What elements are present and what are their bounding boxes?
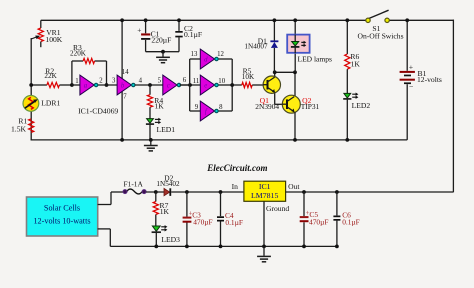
wire C4 branch xyxy=(220,192,222,246)
svg-text:6: 6 xyxy=(183,77,187,84)
svg-text:0.1µF: 0.1µF xyxy=(184,30,202,39)
svg-text:1: 1 xyxy=(75,78,78,85)
label On-Off Swichs xyxy=(357,32,403,41)
label LED lamps xyxy=(298,55,332,64)
label 1.5K xyxy=(11,124,26,133)
wire solar negative lead xyxy=(98,229,111,247)
label 100K xyxy=(45,35,62,44)
solar panel block xyxy=(27,197,98,236)
node regulator ground junction xyxy=(262,245,266,249)
label 0.1uF (C2) xyxy=(184,30,202,39)
svg-text:1N4007: 1N4007 xyxy=(244,43,268,51)
fuse F1 xyxy=(123,189,146,194)
label Q1 xyxy=(260,96,269,105)
label 0.1uF (C4) xyxy=(225,218,243,227)
svg-text:1.5K: 1.5K xyxy=(11,124,26,133)
wire LED-lamps branch xyxy=(294,20,296,72)
svg-text:12-volts 10-watts: 12-volts 10-watts xyxy=(33,217,90,226)
svg-text:b: b xyxy=(121,83,125,90)
node C3 top junction xyxy=(185,190,189,194)
node LED1 bottom-rail junction xyxy=(149,138,153,142)
LED LED1 xyxy=(146,118,161,140)
svg-text:2: 2 xyxy=(99,78,103,85)
wire Q1 emitter to Q2 base xyxy=(275,92,287,104)
svg-text:0.1µF: 0.1µF xyxy=(225,218,243,227)
svg-text:Ground: Ground xyxy=(266,204,289,213)
label C1 xyxy=(151,30,160,39)
svg-text:+: + xyxy=(409,62,414,71)
op-amp U1f inverter gate f xyxy=(200,101,218,121)
wire bottom ground rail xyxy=(110,245,337,247)
label IC1-CD4069 xyxy=(78,107,118,116)
label 220K xyxy=(70,50,87,58)
label R4 xyxy=(154,96,163,105)
label 0.1uF (C6) xyxy=(342,217,360,226)
wire top supply rail (S1 to right corner) xyxy=(387,19,454,21)
node gates-output junction xyxy=(230,83,234,87)
node Q2 collector junction xyxy=(293,70,297,74)
node pin7 bottom-rail junction xyxy=(120,138,124,142)
label Solar Cells xyxy=(44,204,80,213)
LED LED2 xyxy=(343,93,358,99)
label R2 xyxy=(45,66,54,75)
wire bottom rail of top section xyxy=(31,139,408,141)
svg-text:2N3904: 2N3904 xyxy=(255,102,279,111)
op-amp U1a inverter gate a xyxy=(80,75,98,95)
label 1K (R6) xyxy=(351,60,361,69)
switch S1 xyxy=(366,10,390,22)
pin 10 label xyxy=(218,78,225,85)
label 1N4007 xyxy=(244,43,268,51)
resistor R7 xyxy=(153,192,158,226)
svg-text:10K: 10K xyxy=(242,73,255,81)
svg-text:7: 7 xyxy=(123,94,127,101)
label 220uF xyxy=(151,36,171,45)
wire Q2 collector xyxy=(294,72,296,96)
svg-text:F1-1A: F1-1A xyxy=(124,180,144,189)
wire gate-b output to gate-c input xyxy=(135,84,163,86)
node LED-lamps top-rail junction xyxy=(293,18,297,22)
svg-text:9: 9 xyxy=(195,104,199,111)
svg-text:e: e xyxy=(204,83,207,90)
svg-text:Out: Out xyxy=(288,182,300,191)
pin 13 label xyxy=(191,51,198,58)
ground below LED1 node xyxy=(144,140,158,151)
pin 14 label xyxy=(122,69,129,76)
label TIP31 xyxy=(301,102,320,111)
svg-text:12-volts: 12-volts xyxy=(417,75,442,84)
pin 9 label xyxy=(195,104,199,111)
label 12-volts xyxy=(417,75,442,84)
capacitor C5 xyxy=(300,209,310,222)
resistor R2 xyxy=(31,82,72,87)
svg-text:a: a xyxy=(84,83,88,90)
LED LED3 xyxy=(152,225,168,246)
svg-text:220K: 220K xyxy=(70,50,87,58)
svg-text:IC1-CD4069: IC1-CD4069 xyxy=(78,107,118,116)
ground below regulator xyxy=(257,246,271,261)
capacitor C3 xyxy=(183,209,193,222)
svg-text:Solar Cells: Solar Cells xyxy=(44,204,80,213)
node paralleled-gates input junction xyxy=(188,83,192,87)
svg-text:11: 11 xyxy=(193,78,200,85)
svg-text:3: 3 xyxy=(112,78,116,85)
ground below C1/C2 xyxy=(156,52,170,63)
wire fuse to D2 xyxy=(146,191,164,193)
label 1K (R4) xyxy=(155,102,165,111)
pin 1 label xyxy=(75,78,78,85)
capacitor C6 xyxy=(333,216,340,221)
svg-text:LM7815: LM7815 xyxy=(251,191,278,200)
resistor R6 xyxy=(345,54,350,69)
label F1-1A xyxy=(124,180,144,189)
label D1 xyxy=(258,36,267,45)
wire R6 to LED2 xyxy=(346,69,348,93)
node C5 top junction xyxy=(302,190,306,194)
label D2 xyxy=(164,173,173,182)
resistor R3 xyxy=(83,58,95,63)
wire R3 feedback loop xyxy=(72,61,107,85)
svg-text:0.1µF: 0.1µF xyxy=(342,217,360,226)
pin 12 label xyxy=(217,51,224,58)
regulator IC1 LM7815 xyxy=(244,181,286,201)
wire regulator ground pin xyxy=(263,201,265,246)
label In xyxy=(232,182,239,191)
wire C2 branch xyxy=(163,20,179,51)
node B1 top-rail junction xyxy=(405,18,409,22)
label S1 xyxy=(372,24,380,33)
svg-text:In: In xyxy=(232,182,239,191)
node pin14 top-rail junction xyxy=(120,18,124,22)
wire D1 branch xyxy=(273,20,275,72)
label LED1 xyxy=(157,125,176,134)
label B1 xyxy=(418,69,427,78)
label Ground xyxy=(266,204,289,213)
label R5 xyxy=(243,67,252,76)
wire LED2 to bottom rail xyxy=(346,99,348,140)
label C4 xyxy=(225,211,234,220)
label 1N5402 xyxy=(156,180,180,188)
svg-text:100K: 100K xyxy=(45,35,62,44)
potentiometer VR1 xyxy=(31,20,43,47)
label LED2 xyxy=(352,101,371,110)
wire C6 branch xyxy=(336,192,338,246)
label 1K (R7) xyxy=(160,207,170,216)
node C6 top junction xyxy=(335,190,339,194)
wire gate-c output to paralleled gates xyxy=(180,84,201,86)
wire solar positive lead xyxy=(98,192,124,205)
svg-text:14: 14 xyxy=(122,69,129,76)
pin 4 label xyxy=(139,77,143,84)
diode D2 xyxy=(164,188,170,196)
node C4 top junction xyxy=(219,190,223,194)
label LED3 xyxy=(161,235,180,244)
label 22K xyxy=(44,72,57,80)
svg-text:22K: 22K xyxy=(44,72,57,80)
diode D1 xyxy=(270,41,278,48)
svg-text:+: + xyxy=(137,25,141,34)
label 10K xyxy=(242,73,255,81)
resistor R4 xyxy=(147,85,152,119)
svg-text:ElecCircuit.com: ElecCircuit.com xyxy=(206,163,267,173)
node Q2 emitter junction xyxy=(293,138,297,142)
svg-text:470µF: 470µF xyxy=(193,218,212,227)
resistor R1 xyxy=(29,119,34,133)
op-amp U1d inverter gate d xyxy=(200,49,218,69)
label C2 xyxy=(184,24,193,33)
label R6 xyxy=(350,52,359,61)
node LED2 bottom-rail junction xyxy=(345,138,349,142)
pin 8 label xyxy=(219,104,223,111)
pin 11 label xyxy=(193,78,200,85)
svg-text:IC1: IC1 xyxy=(259,182,271,191)
capacitor C2 xyxy=(175,31,182,37)
wire C3 branch xyxy=(186,192,188,246)
label VR1 xyxy=(46,28,61,37)
svg-text:LED1: LED1 xyxy=(157,125,176,134)
svg-text:c: c xyxy=(167,83,170,90)
label 12-volts 10-watts xyxy=(33,217,90,226)
node C2 top-rail junction xyxy=(177,18,181,22)
label LDR1 xyxy=(41,99,60,108)
pin 5 label xyxy=(158,78,162,85)
svg-text:LED lamps: LED lamps xyxy=(298,55,332,64)
label C6 xyxy=(342,210,351,219)
node D1 top-rail junction xyxy=(273,18,277,22)
transistor Q2 xyxy=(282,95,300,113)
wire collector tie xyxy=(275,71,295,73)
wire C5 branch xyxy=(303,192,305,246)
node R4 junction xyxy=(148,83,152,87)
label C3 xyxy=(192,210,201,219)
svg-text:1K: 1K xyxy=(351,60,361,69)
node inverter-a input junction xyxy=(70,83,74,87)
pin 3 label xyxy=(112,78,116,85)
battery B1 xyxy=(400,62,415,91)
node R7 junction xyxy=(154,190,158,194)
wire top supply rail (left segment to S1) xyxy=(41,19,368,21)
wire R6 branch top xyxy=(346,20,348,54)
wire gate-e output xyxy=(180,84,233,86)
svg-text:8: 8 xyxy=(219,104,223,111)
wire Q2 emitter xyxy=(294,112,296,140)
node inverter-a output junction xyxy=(105,83,109,87)
svg-text:10: 10 xyxy=(218,78,225,85)
label 2N3904 xyxy=(255,102,279,111)
label Out xyxy=(288,182,300,191)
node LED3 bottom junction xyxy=(154,245,158,249)
wire left rail (VR1 wiper node down to bottom rail) xyxy=(30,38,32,140)
label C5 xyxy=(309,210,318,219)
svg-text:TIP31: TIP31 xyxy=(301,102,320,111)
svg-text:4: 4 xyxy=(139,77,143,84)
svg-text:13: 13 xyxy=(191,51,198,58)
wire right edge from top rail down to regulator output rail xyxy=(452,20,454,193)
label ElecCircuit.com xyxy=(206,163,267,173)
wire Q1 collector xyxy=(274,72,276,77)
svg-text:LED3: LED3 xyxy=(161,235,180,244)
node C6 bottom junction xyxy=(335,245,339,249)
svg-text:−: − xyxy=(409,82,414,91)
op-amp U1c inverter gate c xyxy=(163,75,181,95)
label Q2 xyxy=(302,96,311,105)
wire paralleled-gates input bus xyxy=(190,59,201,111)
label R3 xyxy=(73,43,82,52)
wire IC power pin line (pin14 top to pin7 bottom) xyxy=(121,20,123,140)
svg-text:1K: 1K xyxy=(155,102,165,111)
svg-text:5: 5 xyxy=(158,78,162,85)
svg-text:12: 12 xyxy=(217,51,224,58)
wire B1 branch bottom segment xyxy=(406,84,408,140)
node Q1 collector junction xyxy=(273,70,277,74)
photoresistor LDR1 xyxy=(23,96,39,112)
pin 7 label xyxy=(123,94,127,101)
svg-text:220µF: 220µF xyxy=(151,36,171,45)
node left-rail/R2 junction xyxy=(29,83,33,87)
capacitor C1 xyxy=(137,25,150,39)
op-amp U1b inverter gate b xyxy=(117,75,135,95)
svg-text:1N5402: 1N5402 xyxy=(156,180,180,188)
wire paralleled-gates output bus xyxy=(218,59,233,111)
label 470uF (C5) xyxy=(309,218,328,227)
svg-text:On-Off Swichs: On-Off Swichs xyxy=(357,32,403,41)
transistor Q1 xyxy=(263,76,280,93)
label R7 xyxy=(160,201,169,210)
wire D2 to regulator input xyxy=(171,191,244,193)
node C4 bottom junction xyxy=(219,245,223,249)
node R6 top-rail junction xyxy=(345,18,349,22)
resistor R5 xyxy=(232,82,263,87)
node C1 top-rail junction xyxy=(144,18,148,22)
node C1/C2 ground junction xyxy=(161,50,165,54)
wire inverter-a input/output row xyxy=(72,84,117,86)
op-amp U1e inverter gate e xyxy=(200,75,218,95)
svg-text:LED2: LED2 xyxy=(352,101,371,110)
wire regulator output rail xyxy=(286,191,454,193)
svg-text:d: d xyxy=(204,57,208,64)
pin 6 label xyxy=(183,77,187,84)
svg-text:1K: 1K xyxy=(160,207,170,216)
wire B1 branch top xyxy=(406,20,408,71)
node C3 bottom junction xyxy=(185,245,189,249)
svg-text:470µF: 470µF xyxy=(309,218,328,227)
pin 2 label xyxy=(99,78,103,85)
LED lamps (load) xyxy=(287,35,309,54)
node C5 bottom junction xyxy=(302,245,306,249)
wire C1 branch xyxy=(146,20,163,51)
svg-text:LDR1: LDR1 xyxy=(41,99,60,108)
label 470uF (C3) xyxy=(193,218,212,227)
capacitor C4 xyxy=(217,216,224,221)
label R1 xyxy=(18,117,27,126)
